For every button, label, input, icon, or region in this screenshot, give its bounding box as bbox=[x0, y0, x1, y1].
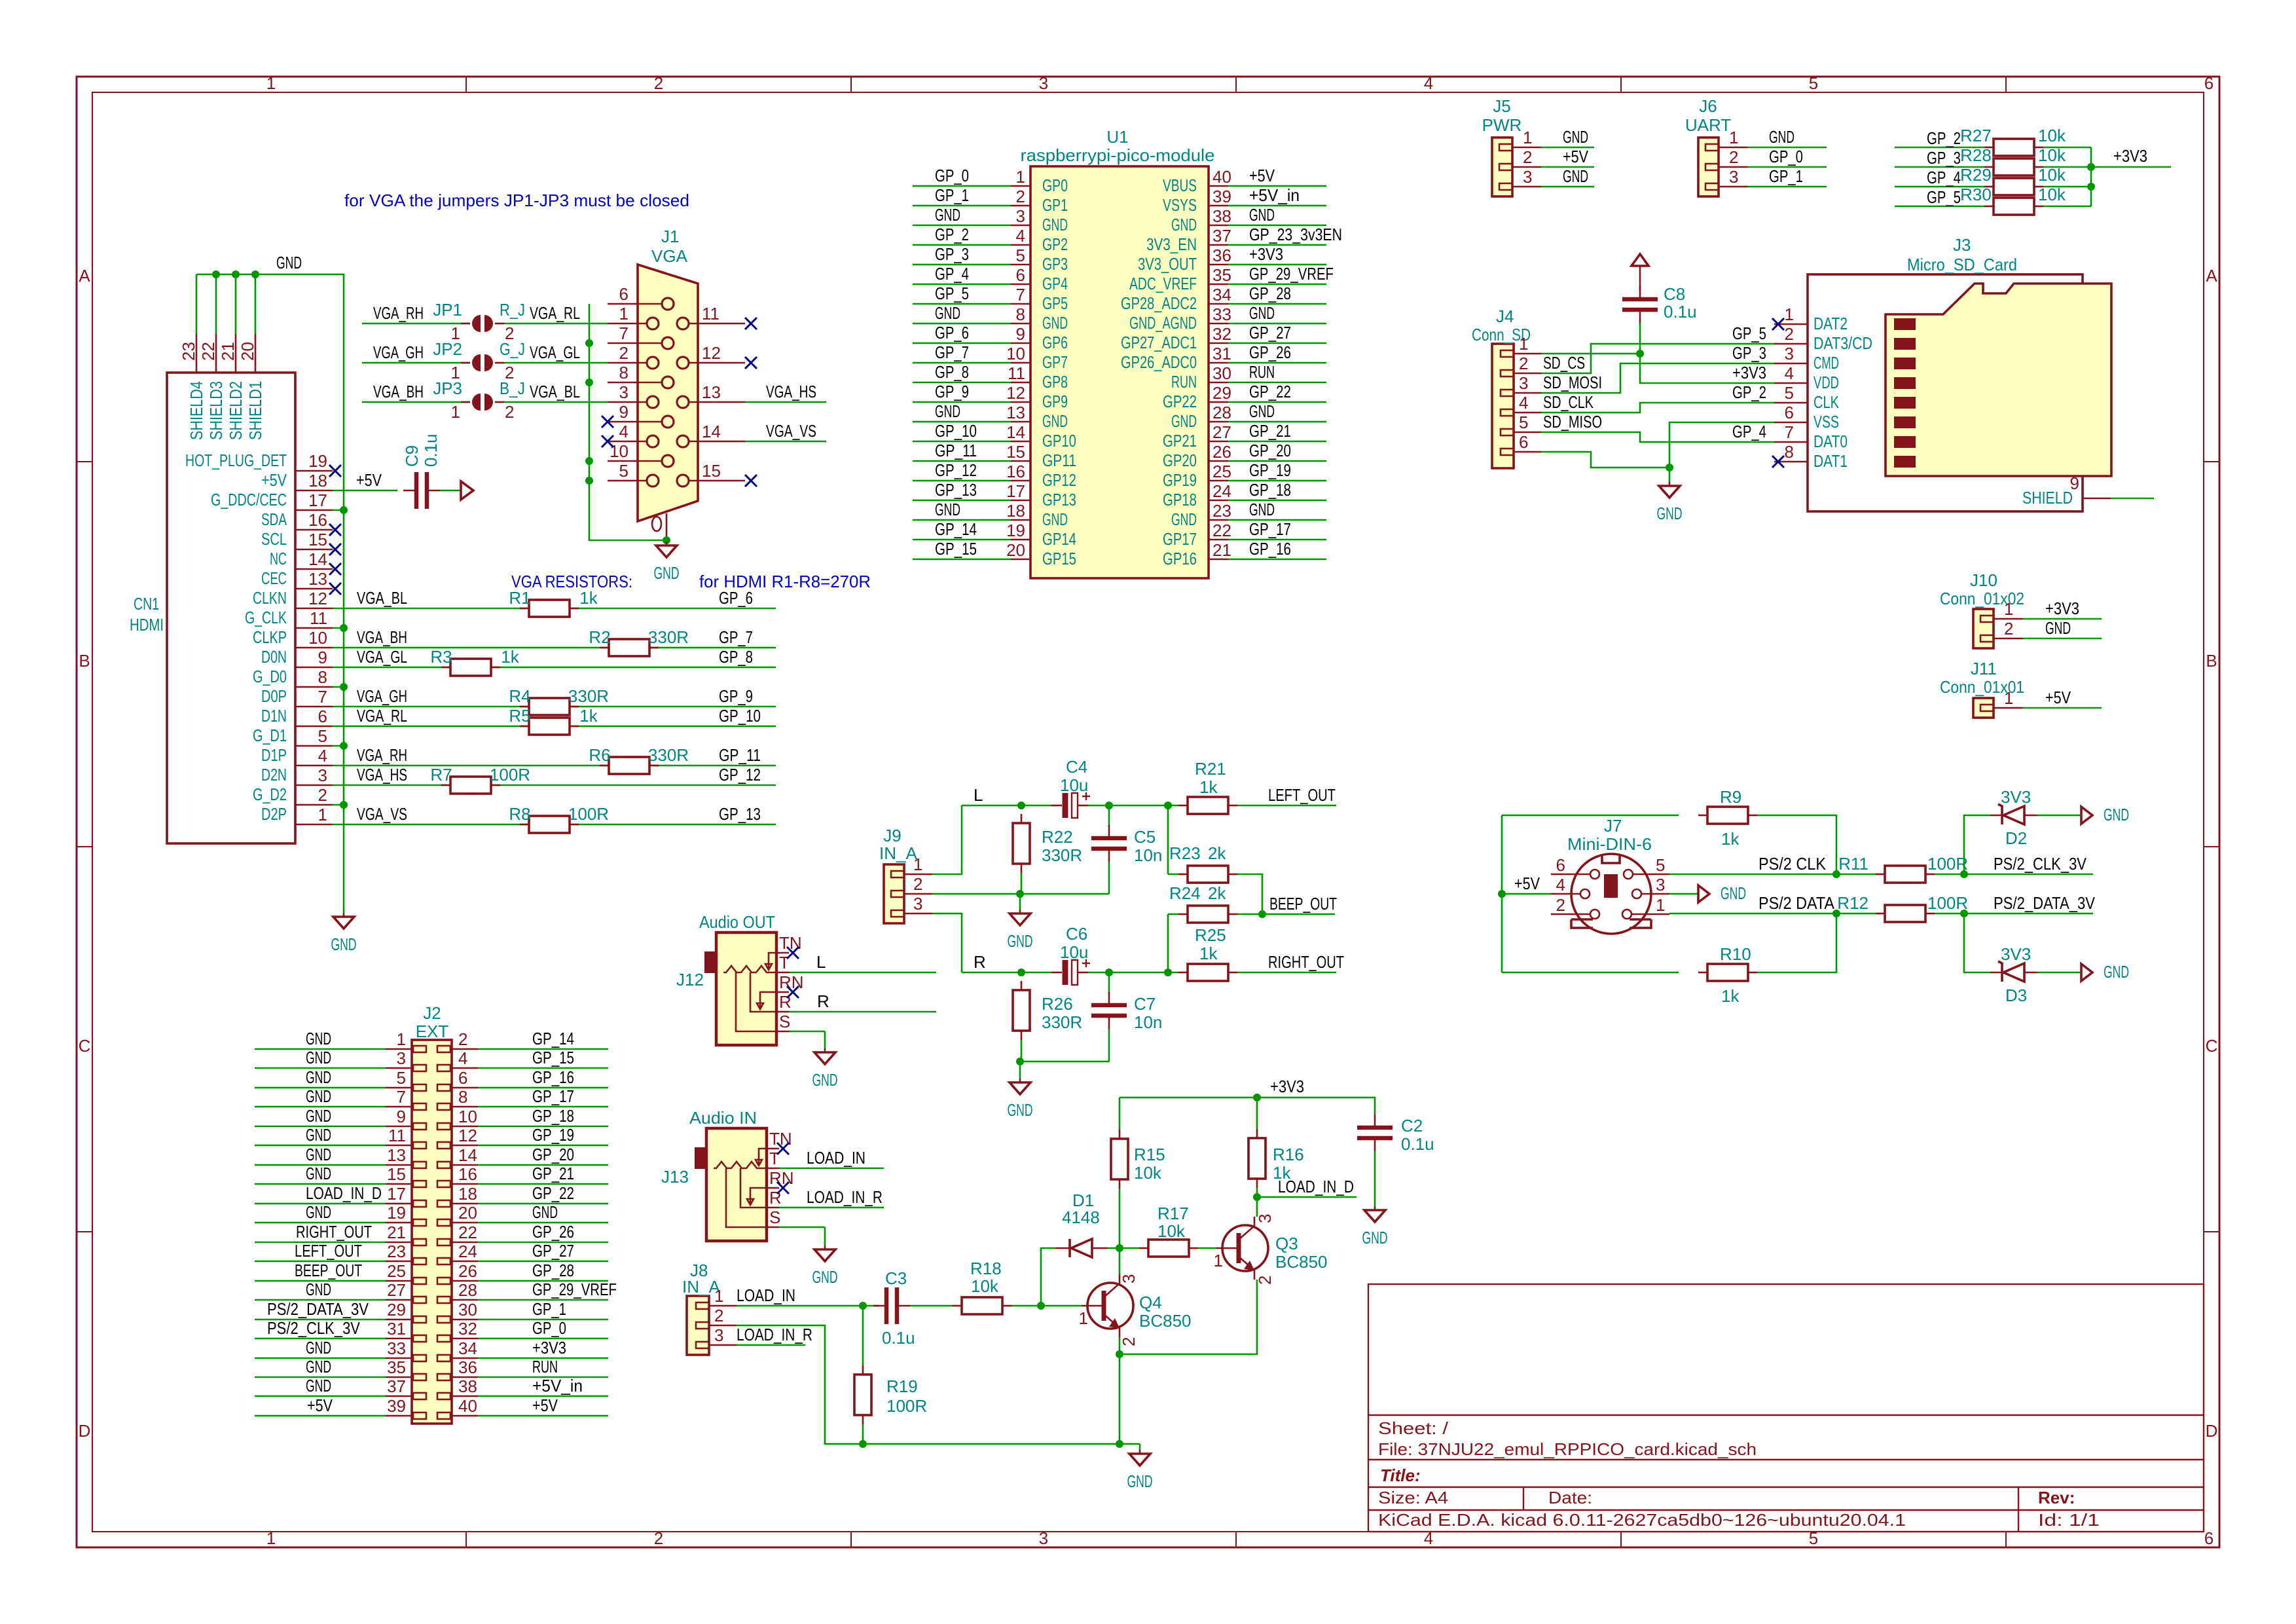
svg-text:GND: GND bbox=[1008, 1100, 1033, 1120]
resistor R22 bbox=[1021, 814, 1023, 823]
CN1 pin 13 CEC bbox=[295, 588, 333, 590]
junction R19 gnd bbox=[859, 1440, 867, 1448]
J2 pin 32 bbox=[452, 1338, 478, 1340]
svg-text:RIGHT_OUT: RIGHT_OUT bbox=[296, 1222, 372, 1242]
wire L from J12 T bbox=[789, 972, 936, 974]
wire GND to J2 pin 15 bbox=[255, 1183, 386, 1185]
svg-text:33: 33 bbox=[1212, 304, 1231, 324]
svg-text:4: 4 bbox=[458, 1048, 467, 1068]
wire GND to J2 pin 9 bbox=[255, 1126, 386, 1128]
svg-text:J9: J9 bbox=[883, 826, 901, 845]
wire VGA_GH bbox=[362, 362, 469, 364]
svg-text:19: 19 bbox=[308, 451, 327, 471]
svg-text:D0P: D0P bbox=[261, 686, 287, 706]
wire R28 to +3V3 bus bbox=[2043, 166, 2091, 168]
CN1 pin 11 G_CLK bbox=[295, 627, 333, 629]
wire D3 branch bbox=[1964, 913, 1990, 972]
junction gnd rail bbox=[1116, 1440, 1123, 1448]
svg-text:CMD: CMD bbox=[1813, 353, 1839, 373]
wire shield stub bbox=[235, 274, 237, 334]
svg-text:VGA_VS: VGA_VS bbox=[357, 804, 407, 824]
svg-text:1: 1 bbox=[1519, 334, 1528, 354]
svg-text:PS/2 CLK: PS/2 CLK bbox=[1758, 854, 1827, 874]
wire GP_21 to U1 pin 27 bbox=[1228, 441, 1326, 443]
wire GND to J2 pin 35 bbox=[255, 1376, 386, 1378]
svg-text:18: 18 bbox=[1006, 501, 1025, 521]
wire GP_20 to J2 pin 14 bbox=[478, 1164, 608, 1166]
wire GP_17 to U1 pin 22 bbox=[1228, 539, 1326, 541]
svg-text:R22: R22 bbox=[1042, 827, 1073, 847]
svg-text:BC850: BC850 bbox=[1275, 1252, 1328, 1272]
svg-text:+5V_in: +5V_in bbox=[1249, 185, 1300, 205]
svg-text:3: 3 bbox=[1656, 875, 1665, 895]
J1 pin 2 bbox=[608, 362, 647, 364]
svg-text:R3: R3 bbox=[430, 647, 452, 667]
svg-text:Date:: Date: bbox=[1548, 1488, 1592, 1507]
svg-text:+5V: +5V bbox=[1249, 166, 1275, 185]
svg-text:GND: GND bbox=[1249, 303, 1275, 323]
wire D1 to node bbox=[1108, 1247, 1139, 1249]
svg-text:GP17: GP17 bbox=[1163, 529, 1197, 549]
diode D3 zener 3V3 bbox=[1990, 972, 2003, 974]
wire R17 to Q3 base bbox=[1198, 1247, 1218, 1249]
wire R19 top bbox=[862, 1306, 864, 1365]
wire R12 to PS/2_DATA_3V bbox=[1935, 913, 2093, 915]
wire R24 branch vertical bbox=[1167, 914, 1169, 972]
wire GND to U1 pin 8 bbox=[913, 323, 1011, 325]
svg-text:20: 20 bbox=[1006, 540, 1025, 560]
wire Q4 emitter down bbox=[1119, 1337, 1121, 1444]
J2 pin 35 bbox=[386, 1376, 412, 1378]
wire SD_CS to J3 DAT3 bbox=[1541, 344, 1774, 373]
svg-text:27: 27 bbox=[1212, 422, 1231, 442]
svg-text:6: 6 bbox=[2204, 73, 2214, 93]
svg-text:D0N: D0N bbox=[261, 647, 287, 667]
J2 pin 17 bbox=[386, 1203, 412, 1205]
wire GP_0 J6 pin 2 bbox=[1747, 166, 1827, 168]
J7 pin 5 bbox=[1624, 870, 1633, 879]
svg-text:2: 2 bbox=[1523, 147, 1532, 167]
svg-text:GP_11: GP_11 bbox=[935, 441, 977, 460]
svg-text:5: 5 bbox=[397, 1068, 406, 1088]
wire R18 to Q4 base bbox=[1010, 1305, 1082, 1307]
svg-text:G_D0: G_D0 bbox=[253, 667, 287, 686]
wire LEFT_OUT bbox=[1237, 805, 1336, 807]
J1 pin 5 bbox=[608, 480, 647, 482]
capacitor C6 bbox=[1051, 972, 1062, 974]
wire C7 bottom bbox=[1108, 1029, 1110, 1061]
svg-text:2: 2 bbox=[714, 1306, 723, 1325]
svg-text:14: 14 bbox=[1006, 422, 1025, 442]
svg-text:SHIELD2: SHIELD2 bbox=[226, 381, 246, 440]
no-connect bbox=[329, 544, 341, 555]
svg-text:9: 9 bbox=[397, 1107, 406, 1126]
U1 pin 29 GP22 bbox=[1209, 401, 1228, 403]
svg-text:ADC_VREF: ADC_VREF bbox=[1129, 274, 1197, 293]
svg-text:3V3: 3V3 bbox=[2001, 787, 2031, 807]
wire GP_20 to U1 pin 26 bbox=[1228, 460, 1326, 462]
wire BEEP_OUT bbox=[1237, 913, 1335, 915]
J3 pin 6 VSS bbox=[1774, 422, 1808, 424]
svg-text:100R: 100R bbox=[1927, 893, 1968, 913]
U1 pin 25 GP19 bbox=[1209, 480, 1228, 482]
J13 pin RN bbox=[767, 1187, 779, 1189]
svg-text:34: 34 bbox=[1212, 285, 1231, 304]
wire C5 bottom bbox=[1108, 862, 1110, 894]
wire VGA_GL bbox=[504, 362, 608, 364]
wire GND to J2 pin 7 bbox=[255, 1106, 386, 1108]
U1 pin 36 3V3_OUT bbox=[1209, 264, 1228, 266]
svg-text:GND: GND bbox=[1171, 509, 1197, 529]
svg-text:1: 1 bbox=[1656, 895, 1665, 915]
resistor R9 bbox=[1698, 815, 1707, 817]
svg-text:C3: C3 bbox=[885, 1268, 907, 1288]
connector J10 body bbox=[1973, 609, 1994, 648]
svg-text:GND: GND bbox=[532, 1202, 558, 1222]
svg-text:GP16: GP16 bbox=[1163, 549, 1197, 568]
svg-text:GP2: GP2 bbox=[1042, 234, 1068, 254]
CN1 pin 18 +5V bbox=[295, 490, 333, 492]
svg-text:100R: 100R bbox=[1927, 854, 1968, 874]
wire GP_26 to U1 pin 31 bbox=[1228, 362, 1326, 364]
U1 pin 28 GND bbox=[1209, 421, 1228, 423]
junction bbox=[1105, 802, 1113, 809]
J13 jack sleeve bbox=[695, 1147, 706, 1169]
J13 pin T bbox=[767, 1168, 779, 1170]
wire GP_27 to U1 pin 32 bbox=[1228, 342, 1326, 344]
J13 pin R bbox=[767, 1207, 779, 1209]
U1 pin 26 GP20 bbox=[1209, 460, 1228, 462]
CN1 pin 3 D2N bbox=[295, 784, 333, 786]
svg-text:GND: GND bbox=[1042, 411, 1068, 431]
svg-text:R28: R28 bbox=[1960, 145, 1992, 165]
svg-text:6: 6 bbox=[458, 1068, 467, 1088]
svg-text:36: 36 bbox=[1212, 246, 1231, 265]
svg-text:9: 9 bbox=[318, 648, 327, 667]
svg-text:GP_16: GP_16 bbox=[532, 1067, 574, 1087]
no-connect J12 RN bbox=[787, 986, 799, 998]
svg-text:GP_9: GP_9 bbox=[719, 686, 753, 706]
wire GP_11 to U1 pin 15 bbox=[913, 460, 1011, 462]
wire GP_29_VREF to U1 pin 35 bbox=[1228, 284, 1326, 286]
svg-text:VGA: VGA bbox=[651, 246, 688, 266]
svg-text:R: R bbox=[817, 991, 829, 1011]
svg-text:R8: R8 bbox=[509, 804, 530, 824]
svg-text:GP_3: GP_3 bbox=[1927, 148, 1961, 168]
svg-text:PS/2 DATA: PS/2 DATA bbox=[1758, 893, 1835, 913]
wire LOAD_IN_R from J13 R bbox=[779, 1207, 884, 1209]
wire R9 to CLK bbox=[1757, 815, 1836, 874]
J6 pin 2 bbox=[1719, 166, 1747, 168]
svg-text:+5V_in: +5V_in bbox=[532, 1376, 583, 1395]
wire +3V3 to U1 pin 36 bbox=[1228, 264, 1326, 266]
wire VGA_RL to GP_10 bbox=[333, 726, 776, 728]
J13 switch arrow RN bbox=[747, 1188, 767, 1205]
wire C5 top bbox=[1108, 805, 1110, 826]
wire R10 to DATA bbox=[1757, 913, 1836, 972]
wire +5V bbox=[333, 490, 397, 492]
wire GP_0 to U1 pin 1 bbox=[913, 185, 1011, 187]
svg-text:13: 13 bbox=[387, 1145, 406, 1165]
svg-text:2: 2 bbox=[1016, 187, 1025, 206]
svg-text:GND: GND bbox=[812, 1070, 838, 1090]
J13 jack contacts bbox=[714, 1162, 767, 1168]
capacitor C7 bbox=[1108, 992, 1110, 1003]
wire SD_MOSI to J3 CMD bbox=[1541, 363, 1774, 393]
svg-text:10: 10 bbox=[308, 628, 327, 648]
svg-text:GND: GND bbox=[306, 1048, 331, 1067]
no-connect bbox=[329, 524, 341, 536]
junction bbox=[212, 270, 220, 278]
svg-text:GP_27: GP_27 bbox=[1249, 323, 1291, 342]
svg-text:GP8: GP8 bbox=[1042, 372, 1068, 392]
svg-text:GND: GND bbox=[1249, 500, 1275, 519]
J3 pin 1 DAT2 bbox=[1774, 323, 1808, 325]
svg-text:VGA_BL: VGA_BL bbox=[357, 588, 407, 608]
wire to GND bus bbox=[333, 509, 344, 511]
svg-text:PS/2_DATA_3V: PS/2_DATA_3V bbox=[267, 1299, 369, 1319]
svg-text:GP_15: GP_15 bbox=[935, 539, 977, 559]
svg-text:VGA_HS: VGA_HS bbox=[357, 765, 407, 784]
svg-text:G_D2: G_D2 bbox=[253, 784, 287, 804]
svg-text:3: 3 bbox=[714, 1325, 723, 1345]
svg-text:1: 1 bbox=[451, 402, 460, 422]
svg-text:D1P: D1P bbox=[261, 745, 287, 765]
ground symbol under HDMI bus bbox=[343, 910, 345, 913]
svg-text:4: 4 bbox=[1519, 393, 1528, 413]
svg-text:GP4: GP4 bbox=[1042, 274, 1068, 293]
connector J8 IN_A body bbox=[687, 1296, 709, 1355]
svg-text:1k: 1k bbox=[1199, 777, 1218, 797]
svg-text:38: 38 bbox=[458, 1376, 477, 1396]
svg-text:R23: R23 bbox=[1169, 843, 1201, 863]
J1 shield pin 0 bbox=[666, 513, 668, 540]
svg-text:GP_21: GP_21 bbox=[532, 1164, 574, 1183]
junction C8 +3V3 bbox=[1636, 350, 1644, 358]
wire C6 to R25 bbox=[1088, 972, 1178, 974]
svg-text:CEC: CEC bbox=[261, 568, 287, 588]
svg-text:GND: GND bbox=[306, 1106, 331, 1126]
J2 pin 20 bbox=[452, 1222, 478, 1224]
svg-text:GND: GND bbox=[935, 303, 960, 323]
svg-text:GND: GND bbox=[306, 1086, 331, 1106]
J1 pin 6 bbox=[608, 303, 662, 305]
svg-text:6: 6 bbox=[1519, 432, 1528, 452]
wire R15 bottom to node bbox=[1119, 1189, 1121, 1248]
J2 pin 10 bbox=[452, 1126, 478, 1128]
svg-text:10k: 10k bbox=[2038, 185, 2066, 204]
wire GP_15 to U1 pin 20 bbox=[913, 559, 1011, 561]
J9 pin 3 bbox=[904, 913, 932, 915]
svg-text:R9: R9 bbox=[1720, 787, 1741, 807]
svg-text:13: 13 bbox=[1006, 403, 1025, 422]
junction 3V3 rail bbox=[1253, 1094, 1261, 1101]
svg-text:5: 5 bbox=[619, 461, 629, 481]
svg-text:1: 1 bbox=[1214, 1251, 1223, 1270]
svg-text:R18: R18 bbox=[970, 1259, 1002, 1278]
svg-text:+5V: +5V bbox=[261, 470, 287, 490]
J5 pin 1 bbox=[1512, 147, 1541, 149]
wire +5V to J2 pin 40 bbox=[478, 1415, 608, 1417]
svg-text:GP_18: GP_18 bbox=[532, 1106, 574, 1126]
svg-text:GP15: GP15 bbox=[1042, 549, 1076, 568]
svg-text:GP_20: GP_20 bbox=[532, 1145, 574, 1164]
svg-text:J5: J5 bbox=[1493, 96, 1510, 116]
junction bbox=[585, 457, 593, 465]
wire GP_26 to J2 pin 22 bbox=[478, 1242, 608, 1244]
svg-text:7: 7 bbox=[318, 687, 327, 707]
svg-text:2: 2 bbox=[1255, 1276, 1275, 1285]
svg-text:D2P: D2P bbox=[261, 804, 287, 824]
ground symbol J13 bbox=[824, 1227, 826, 1246]
svg-text:Micro_SD_Card: Micro_SD_Card bbox=[1907, 255, 2017, 274]
svg-text:GND: GND bbox=[306, 1357, 331, 1376]
wire +3V3 to J3 VDD bbox=[1640, 354, 1774, 383]
J2 pin 40 bbox=[452, 1415, 478, 1417]
U1 pin 4 GP2 bbox=[1011, 244, 1030, 246]
svg-text:GP3: GP3 bbox=[1042, 254, 1068, 274]
wire R23 left bbox=[1168, 874, 1180, 876]
svg-text:Audio OUT: Audio OUT bbox=[699, 912, 775, 932]
wire GP_4 to U1 pin 6 bbox=[913, 284, 1011, 286]
wire GND to J2 pin 1 bbox=[255, 1048, 386, 1050]
svg-text:GND: GND bbox=[1008, 931, 1033, 951]
svg-text:+5V: +5V bbox=[1563, 147, 1589, 166]
svg-text:1: 1 bbox=[397, 1029, 406, 1049]
J12 pin T bbox=[776, 972, 789, 974]
U1 pin 7 GP5 bbox=[1011, 303, 1030, 305]
svg-text:S: S bbox=[779, 1012, 790, 1031]
wire GP_1 to U1 pin 2 bbox=[913, 205, 1011, 207]
svg-text:CLKN: CLKN bbox=[253, 588, 287, 608]
svg-text:+3V3: +3V3 bbox=[2113, 146, 2147, 166]
svg-text:10k: 10k bbox=[2038, 145, 2066, 165]
wire J4 pin1 +3V3 feed bbox=[1541, 353, 1640, 355]
U1 pin 21 GP16 bbox=[1209, 559, 1228, 561]
svg-text:VGA_GH: VGA_GH bbox=[357, 686, 407, 706]
svg-text:3: 3 bbox=[619, 382, 629, 402]
svg-text:VGA_GL: VGA_GL bbox=[530, 342, 580, 362]
wire VGA_BL to GP_6 bbox=[333, 608, 776, 610]
ground symbol C2 bbox=[1374, 1206, 1376, 1208]
J1 pin 3 bbox=[608, 401, 647, 403]
svg-text:19: 19 bbox=[1006, 521, 1025, 540]
resistor R3 bbox=[441, 667, 450, 669]
svg-text:LEFT_OUT: LEFT_OUT bbox=[295, 1241, 362, 1261]
connector J7 Mini-DIN-6 body bbox=[1571, 854, 1651, 934]
wire R24 left branch bbox=[1168, 913, 1178, 915]
svg-text:R1: R1 bbox=[509, 588, 530, 608]
J7 pin 3 bbox=[1632, 889, 1641, 898]
svg-text:G_DDC/CEC: G_DDC/CEC bbox=[211, 490, 287, 509]
svg-text:GP_29_VREF: GP_29_VREF bbox=[1249, 264, 1334, 284]
svg-text:+5V: +5V bbox=[307, 1395, 333, 1415]
U1 pin 33 GND_AGND bbox=[1209, 323, 1228, 325]
J2 pin 29 bbox=[386, 1319, 412, 1321]
wire GP_4 to R29 bbox=[1895, 186, 1984, 188]
wire +5V to U1 pin 40 bbox=[1228, 185, 1326, 187]
ground symbol J12 bbox=[824, 1031, 826, 1048]
ground symbol transistors bbox=[1139, 1444, 1141, 1450]
svg-text:5: 5 bbox=[1016, 246, 1025, 265]
svg-text:8: 8 bbox=[1016, 304, 1025, 324]
svg-text:4148: 4148 bbox=[1062, 1208, 1100, 1227]
connector J4 Conn_SD body bbox=[1492, 344, 1514, 468]
J12 jack sleeve bbox=[704, 951, 716, 973]
J12 switch arrow RN bbox=[757, 992, 776, 1009]
wire RUN to U1 pin 30 bbox=[1228, 382, 1326, 384]
svg-text:C6: C6 bbox=[1066, 924, 1087, 944]
svg-text:1k: 1k bbox=[1721, 986, 1740, 1006]
wire LOAD_IN_D bbox=[1257, 1196, 1357, 1198]
wire J3 VSS to GND bbox=[1669, 422, 1774, 468]
svg-text:Sheet: /: Sheet: / bbox=[1378, 1418, 1449, 1438]
J3 pin 2 DAT3/CD bbox=[1774, 343, 1808, 345]
J2 pin 12 bbox=[452, 1145, 478, 1147]
svg-text:GP5: GP5 bbox=[1042, 293, 1068, 313]
junction bbox=[1164, 802, 1172, 809]
svg-text:GND: GND bbox=[1171, 411, 1197, 431]
svg-text:GND: GND bbox=[1563, 127, 1588, 147]
wire GND to U1 pin 3 bbox=[913, 225, 1011, 227]
wire GP_5 to R30 bbox=[1895, 206, 1984, 208]
J2 pin 37 bbox=[386, 1395, 412, 1397]
svg-text:3V3_OUT: 3V3_OUT bbox=[1138, 254, 1197, 274]
svg-text:GP_28: GP_28 bbox=[532, 1261, 574, 1280]
svg-text:A: A bbox=[2206, 266, 2217, 286]
svg-text:13: 13 bbox=[308, 569, 327, 589]
svg-text:6: 6 bbox=[2204, 1528, 2214, 1548]
wire VGA_BH to GP_7 bbox=[333, 647, 776, 649]
svg-text:13: 13 bbox=[702, 382, 721, 402]
svg-text:6: 6 bbox=[1016, 265, 1025, 285]
wire GND J5 pin 1 bbox=[1541, 147, 1594, 149]
U1 pin 11 GP8 bbox=[1011, 382, 1030, 384]
svg-text:14: 14 bbox=[458, 1145, 477, 1165]
svg-text:C9: C9 bbox=[402, 445, 422, 467]
svg-text:J12: J12 bbox=[676, 970, 704, 989]
CN1 pin 6 D1N bbox=[295, 726, 333, 728]
svg-text:GP13: GP13 bbox=[1042, 490, 1076, 509]
svg-text:17: 17 bbox=[308, 490, 327, 510]
wire GND shield bus bbox=[196, 274, 344, 910]
J2 pin 15 bbox=[386, 1183, 412, 1185]
svg-text:GND: GND bbox=[306, 1376, 331, 1395]
U1 pin 39 VSYS bbox=[1209, 205, 1228, 207]
svg-text:GP10: GP10 bbox=[1042, 431, 1076, 451]
svg-text:31: 31 bbox=[1212, 344, 1231, 363]
svg-text:GP11: GP11 bbox=[1042, 451, 1076, 470]
svg-text:GP_22: GP_22 bbox=[1249, 382, 1291, 401]
junction bbox=[340, 801, 348, 809]
wire R9 rail bbox=[1502, 815, 1679, 817]
svg-text:R21: R21 bbox=[1195, 759, 1226, 779]
J2 pin 26 bbox=[452, 1280, 478, 1282]
svg-text:C4: C4 bbox=[1066, 757, 1087, 777]
CN1 pin 5 G_D1 bbox=[295, 745, 333, 747]
J2 pin 38 bbox=[452, 1395, 478, 1397]
svg-text:GP_12: GP_12 bbox=[935, 460, 977, 480]
U1 pin 1 GP0 bbox=[1011, 185, 1030, 187]
junction bbox=[340, 624, 348, 632]
CN1 pin 21 SHIELD bbox=[235, 334, 237, 373]
svg-text:U1: U1 bbox=[1106, 127, 1128, 147]
svg-text:Rev:: Rev: bbox=[2038, 1488, 2075, 1507]
svg-text:GP28_ADC2: GP28_ADC2 bbox=[1121, 293, 1197, 313]
resistor R18 bbox=[953, 1305, 962, 1307]
wire C7 top bbox=[1108, 972, 1110, 993]
resistor R17 bbox=[1139, 1247, 1148, 1249]
